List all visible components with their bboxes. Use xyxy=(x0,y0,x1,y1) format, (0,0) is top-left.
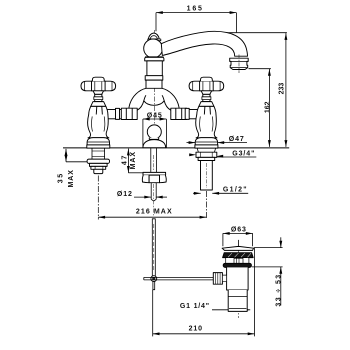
dim 12 right shaft xyxy=(156,196,167,198)
handle bar xyxy=(81,81,116,91)
svg-text:47: 47 xyxy=(122,154,129,165)
handle stem xyxy=(95,94,102,101)
drain flange top xyxy=(222,246,254,250)
svg-text:210: 210 xyxy=(189,325,203,332)
svg-text:Ø12: Ø12 xyxy=(117,191,133,198)
drain mid collar xyxy=(226,258,249,264)
spout column lower xyxy=(146,80,162,88)
dim 45 right arrow xyxy=(160,118,167,121)
dim 45 left extension xyxy=(142,119,144,148)
spout neck ring xyxy=(145,57,164,61)
bonnet bell xyxy=(197,106,216,116)
wing nut plate xyxy=(143,172,166,175)
left tail piece xyxy=(94,169,103,173)
bridge left inner arc xyxy=(137,95,146,110)
dim 45 line xyxy=(143,118,167,120)
dim 35MAX top arrow xyxy=(65,149,68,156)
left pipe to valve xyxy=(107,109,121,111)
bridge right inner arc xyxy=(162,95,171,110)
bridge left nut xyxy=(121,108,137,119)
right valve centerline extension xyxy=(205,191,207,220)
lever nut xyxy=(213,273,222,285)
right pipe connector ring xyxy=(185,108,189,119)
bonnet collar xyxy=(91,102,106,107)
drain gasket band 1 xyxy=(223,253,254,258)
dim 45 right extension xyxy=(165,119,167,148)
dim 165 right extension xyxy=(235,13,237,33)
svg-text:Ø47: Ø47 xyxy=(229,136,245,143)
G34 leader xyxy=(216,156,256,158)
bonnet collar xyxy=(199,102,214,107)
handle stem xyxy=(203,94,210,101)
dim 165 right arrow xyxy=(230,11,237,14)
left valve centerline extension xyxy=(97,176,99,220)
handle cap xyxy=(92,77,104,81)
dim 216MAX line xyxy=(98,216,206,218)
lower stud xyxy=(150,183,152,200)
dim 12 left shaft xyxy=(134,196,151,198)
dim 216MAX right arrow xyxy=(200,216,207,219)
spout lower ring xyxy=(145,76,163,80)
lever nut connector xyxy=(222,275,226,282)
left washer xyxy=(87,159,109,163)
flange top extension line xyxy=(254,247,283,249)
right washer xyxy=(198,157,215,160)
dim 47MAX top arrow xyxy=(127,149,130,156)
svg-text:Ø63: Ø63 xyxy=(231,226,247,233)
spout ball xyxy=(144,39,163,58)
horizontal lever xyxy=(144,276,214,278)
dim 233 bottom arrow xyxy=(284,140,287,147)
dim 210 right arrow xyxy=(248,332,255,335)
dim 165 left extension xyxy=(155,13,157,32)
G12 leader xyxy=(212,192,248,194)
svg-text:162: 162 xyxy=(264,101,271,113)
tailpipe xyxy=(228,290,247,311)
drain centerline xyxy=(238,240,240,318)
handle cap xyxy=(201,77,213,81)
svg-text:233: 233 xyxy=(278,83,285,95)
bridge right top arc xyxy=(162,88,179,108)
svg-text:MAX: MAX xyxy=(68,169,75,187)
body top extension line xyxy=(252,266,283,268)
outlet ferrule xyxy=(230,58,249,69)
dim 47MAX vertical line xyxy=(127,149,129,173)
center ball neck xyxy=(149,138,158,140)
spout finial xyxy=(148,33,159,39)
outlet extension line xyxy=(249,68,271,70)
left ring xyxy=(90,163,108,166)
deck line xyxy=(63,147,289,149)
pull rod xyxy=(152,219,155,276)
center stud xyxy=(150,148,152,172)
dim 63 right arrow xyxy=(246,232,253,235)
left pipe connector ring xyxy=(116,108,120,119)
center bell base xyxy=(143,140,166,148)
G114 leader xyxy=(212,309,250,311)
dim 165 line xyxy=(156,12,236,14)
outlet centerline xyxy=(238,55,240,74)
svg-text:Ø45: Ø45 xyxy=(147,112,163,119)
rod ball joint xyxy=(151,276,157,282)
handle hub xyxy=(92,81,106,91)
center stud centerline xyxy=(153,155,155,171)
spout cylinder xyxy=(147,61,162,76)
right pipe to valve xyxy=(187,109,198,111)
dim 210 left arrow xyxy=(153,332,160,335)
base flange xyxy=(195,138,217,145)
overflow boss xyxy=(234,258,243,263)
handle hub xyxy=(200,81,214,91)
dim 162 vertical line xyxy=(268,69,270,147)
dim 33-53 down arrow xyxy=(279,241,282,248)
drain center tick xyxy=(238,240,240,246)
svg-text:G1 1/4": G1 1/4" xyxy=(180,303,210,310)
dim 63 left arrow xyxy=(223,232,230,235)
dim 162 bottom arrow xyxy=(268,140,271,147)
bridge right nut xyxy=(171,108,187,119)
svg-text:35: 35 xyxy=(57,172,64,183)
left hex xyxy=(91,166,106,169)
svg-text:G1/2": G1/2" xyxy=(223,186,248,193)
base plate xyxy=(195,145,218,148)
dim 47 right arrow xyxy=(217,142,247,144)
dim 33-53 upper segment xyxy=(280,237,282,247)
G12 left arrow xyxy=(193,192,201,194)
dim 210 line xyxy=(153,333,255,335)
dim 45 left arrow xyxy=(143,118,150,121)
dim 47 left arrow xyxy=(187,142,196,144)
handle lower arms xyxy=(93,91,104,95)
center ball xyxy=(147,125,161,139)
dim 35MAX vertical line xyxy=(65,149,67,162)
dim 35MAX tick xyxy=(66,161,89,163)
dim 210 right extension xyxy=(254,248,256,336)
stem ring xyxy=(202,97,211,100)
right tube centerline xyxy=(205,163,207,188)
base plate xyxy=(87,145,110,148)
dim 216MAX left arrow xyxy=(98,216,105,219)
left shank under deck xyxy=(92,148,105,159)
rod lower tail xyxy=(153,281,155,289)
dim 63 left extension xyxy=(222,233,224,246)
handle lower arms xyxy=(201,91,212,95)
spout column centerline xyxy=(153,30,155,136)
dim 33-53 lower segment xyxy=(280,267,282,306)
dim 233 top arrow xyxy=(284,33,287,40)
dim 33-53 up arrow xyxy=(279,267,282,274)
base flange xyxy=(87,138,109,145)
right shank under deck xyxy=(197,148,215,152)
dim 35MAX bottom arrow xyxy=(65,155,68,162)
spout arm xyxy=(161,31,247,56)
right G12 tube xyxy=(201,161,213,191)
svg-text:MAX: MAX xyxy=(130,151,137,169)
wing nut wings xyxy=(142,175,166,183)
spout top extension line xyxy=(224,32,287,34)
svg-text:G3/4": G3/4" xyxy=(232,150,255,157)
svg-text:165: 165 xyxy=(187,6,204,13)
column bottom dip xyxy=(144,101,164,106)
dim 162 top arrow xyxy=(268,69,271,76)
valve body xyxy=(196,115,217,138)
dim 47MAX bottom arrow xyxy=(127,166,130,173)
bridge left top arc xyxy=(129,88,146,108)
drain body xyxy=(227,267,249,290)
dim 47MAX bottom tick xyxy=(128,172,143,174)
handle bar xyxy=(189,81,224,91)
drain gasket band 2 xyxy=(223,263,251,267)
dim 210 left extension xyxy=(152,290,154,337)
svg-text:216 MAX: 216 MAX xyxy=(136,208,173,215)
svg-text:33 ÷ 53: 33 ÷ 53 xyxy=(275,273,282,306)
dim 63 line xyxy=(223,232,253,234)
stem ring xyxy=(94,97,103,100)
dim 165 left arrow xyxy=(156,11,163,14)
G34 nut left arrow xyxy=(189,153,196,156)
bonnet bell xyxy=(89,106,108,116)
valve body xyxy=(88,115,109,138)
dim 63 right extension xyxy=(252,233,254,246)
wing nut hub xyxy=(149,175,159,183)
dim 233 vertical line xyxy=(285,33,287,147)
right locknut G34 xyxy=(196,152,217,157)
